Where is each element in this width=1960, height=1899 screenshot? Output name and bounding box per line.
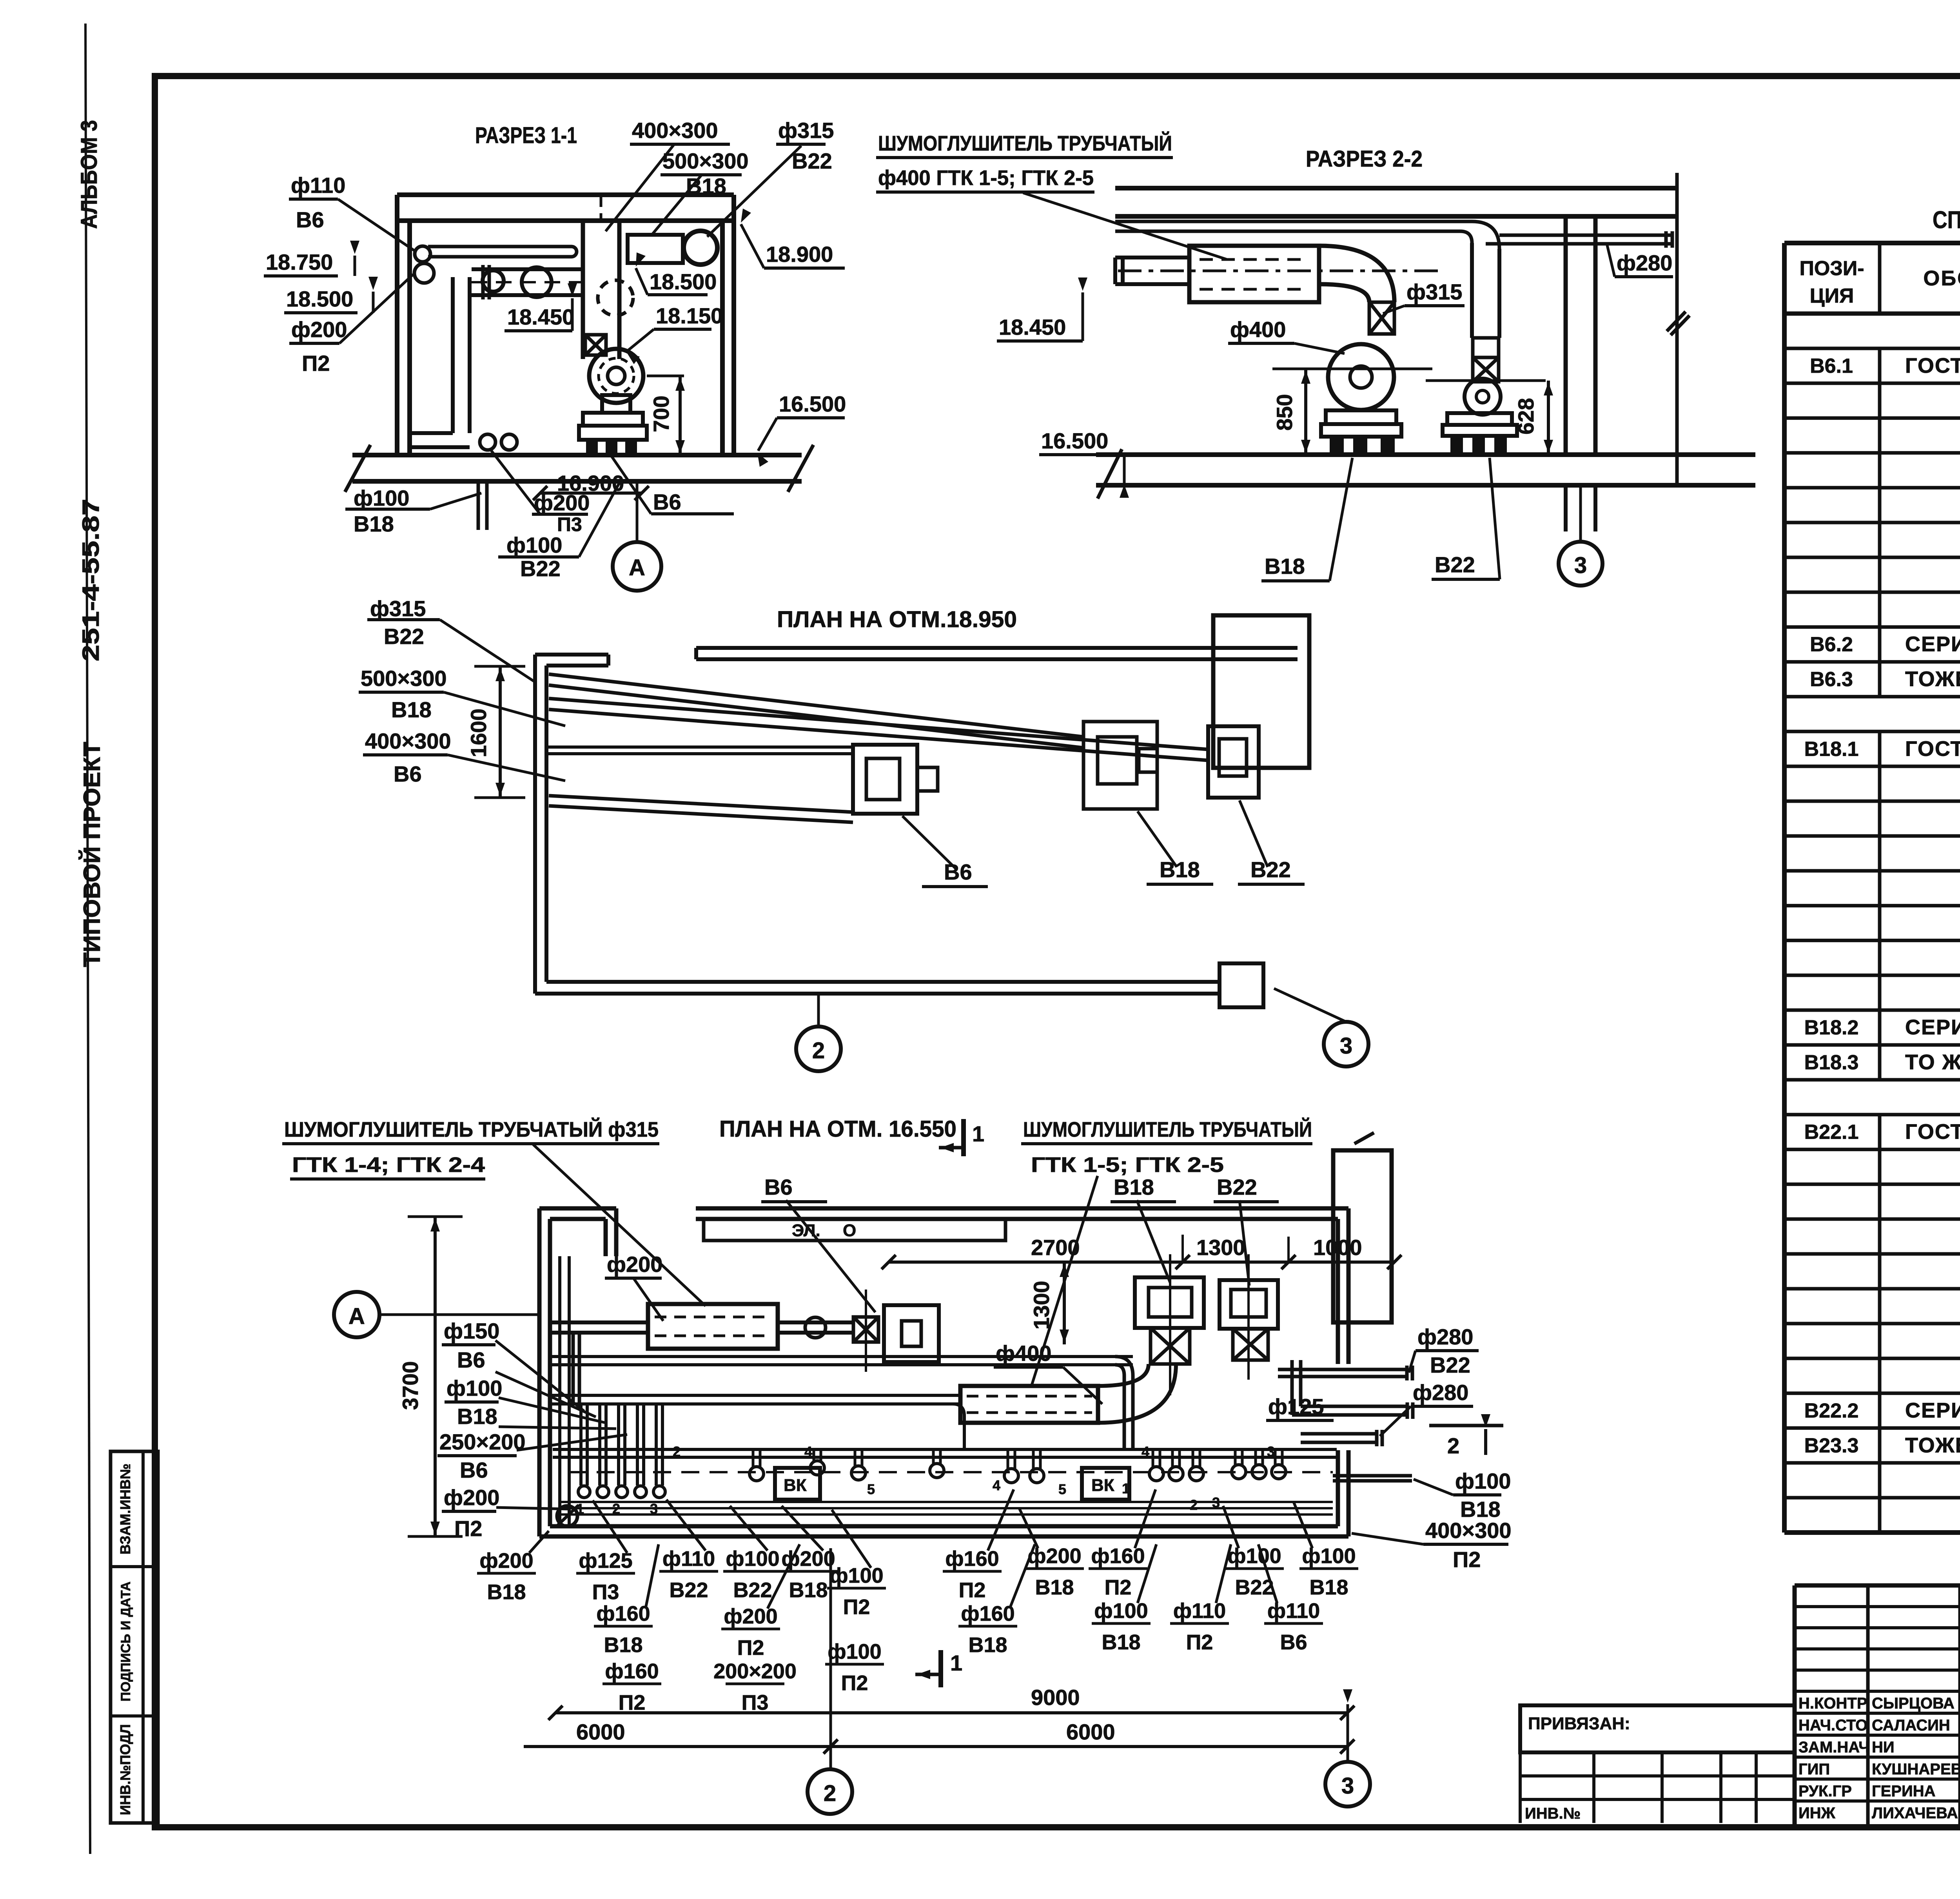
svg-text:ГОСТ 5976-73*: ГОСТ 5976-73*	[1905, 354, 1960, 377]
svg-text:П2: П2	[959, 1578, 986, 1602]
svg-text:3: 3	[1341, 1773, 1354, 1799]
svg-text:ПОЗИ-: ПОЗИ-	[1799, 257, 1864, 280]
svg-text:18.150: 18.150	[656, 303, 723, 328]
svg-text:В18: В18	[604, 1633, 642, 1657]
svg-text:В22: В22	[1430, 1353, 1470, 1377]
svg-text:ЗАМ.НАЧ: ЗАМ.НАЧ	[1798, 1739, 1869, 1756]
svg-text:850: 850	[1272, 394, 1297, 430]
svg-text:ф400 ГТК 1-5; ГТК 2-5: ф400 ГТК 1-5; ГТК 2-5	[878, 166, 1094, 190]
svg-text:П3: П3	[592, 1580, 619, 1604]
svg-text:1000: 1000	[1313, 1235, 1362, 1260]
svg-text:В6.1: В6.1	[1810, 355, 1853, 377]
svg-text:3: 3	[1340, 1033, 1352, 1059]
svg-text:ТИПОВОЙ ПРОЕКТ: ТИПОВОЙ ПРОЕКТ	[79, 742, 105, 967]
svg-text:ГОСТ 5976-73*: ГОСТ 5976-73*	[1905, 1120, 1960, 1144]
svg-text:ф100: ф100	[1302, 1544, 1356, 1568]
svg-text:400×300: 400×300	[632, 118, 718, 143]
svg-text:200×200: 200×200	[713, 1660, 797, 1683]
svg-text:ф125: ф125	[1268, 1394, 1324, 1419]
svg-text:САЛАСИН: САЛАСИН	[1872, 1717, 1950, 1734]
svg-text:2: 2	[673, 1444, 681, 1460]
svg-text:ф100: ф100	[446, 1376, 502, 1400]
svg-text:О: О	[843, 1221, 856, 1240]
svg-text:В22: В22	[1435, 552, 1475, 577]
svg-text:ф400: ф400	[996, 1341, 1051, 1366]
svg-text:4: 4	[804, 1444, 812, 1460]
svg-text:СЕРИЯ 5.904-5: СЕРИЯ 5.904-5	[1905, 1016, 1960, 1039]
svg-text:В6.2: В6.2	[1810, 633, 1853, 656]
svg-text:В18: В18	[391, 697, 432, 722]
svg-text:ф100: ф100	[506, 533, 562, 557]
svg-text:ф100: ф100	[1455, 1469, 1511, 1493]
svg-text:СЫРЦОВА: СЫРЦОВА	[1872, 1695, 1955, 1712]
svg-text:ВК: ВК	[784, 1476, 807, 1495]
svg-text:Н.КОНТР: Н.КОНТР	[1798, 1695, 1867, 1712]
svg-text:СЕРИЯ 5.904-5: СЕРИЯ 5.904-5	[1905, 633, 1960, 656]
svg-text:В22: В22	[792, 149, 832, 173]
svg-text:2: 2	[1190, 1497, 1198, 1513]
svg-text:ф160: ф160	[596, 1602, 650, 1625]
svg-text:В22: В22	[1217, 1175, 1257, 1199]
svg-text:ГЕРИНА: ГЕРИНА	[1872, 1783, 1936, 1800]
svg-text:П2: П2	[302, 351, 330, 375]
svg-text:В18: В18	[1309, 1576, 1348, 1599]
svg-text:В6: В6	[653, 490, 681, 514]
svg-text:В6: В6	[944, 860, 972, 884]
svg-text:ПОДПИСЬ И ДАТА: ПОДПИСЬ И ДАТА	[118, 1582, 133, 1701]
svg-text:В22: В22	[384, 624, 424, 649]
svg-text:400×300: 400×300	[1425, 1518, 1512, 1543]
svg-text:ф200: ф200	[291, 317, 347, 342]
svg-text:4: 4	[1142, 1444, 1149, 1460]
svg-text:2: 2	[612, 1501, 620, 1517]
svg-text:П2: П2	[1186, 1631, 1213, 1654]
svg-text:В22: В22	[1250, 857, 1291, 882]
svg-text:В18: В18	[487, 1580, 526, 1604]
svg-text:ф200: ф200	[479, 1549, 533, 1573]
svg-text:НАЧ.СТО: НАЧ.СТО	[1798, 1717, 1867, 1734]
svg-text:18.900: 18.900	[766, 242, 833, 267]
svg-text:ВЗАМ.ИНВ№: ВЗАМ.ИНВ№	[117, 1464, 133, 1554]
svg-text:В6: В6	[296, 207, 324, 232]
svg-text:В18: В18	[457, 1404, 497, 1429]
svg-text:ф100: ф100	[829, 1564, 883, 1587]
svg-text:ШУМОГЛУШИТЕЛЬ ТРУБЧАТЫЙ: ШУМОГЛУШИТЕЛЬ ТРУБЧАТЫЙ	[1023, 1117, 1312, 1141]
svg-text:16.500: 16.500	[1041, 428, 1108, 453]
svg-text:4: 4	[993, 1477, 1000, 1493]
svg-text:ИНВ.№: ИНВ.№	[1525, 1805, 1581, 1822]
svg-text:500×300: 500×300	[361, 666, 447, 691]
svg-text:ф110: ф110	[662, 1547, 715, 1571]
svg-text:В22.1: В22.1	[1804, 1121, 1859, 1144]
svg-text:250×200: 250×200	[439, 1429, 526, 1454]
svg-text:1: 1	[972, 1121, 984, 1146]
svg-text:В22: В22	[669, 1578, 708, 1602]
svg-text:251-4-55.87: 251-4-55.87	[78, 499, 104, 662]
svg-text:В18: В18	[1102, 1631, 1140, 1654]
svg-text:ф110: ф110	[1173, 1599, 1226, 1623]
svg-text:ТОЖЕ: ТОЖЕ	[1905, 667, 1960, 691]
svg-text:6000: 6000	[1066, 1719, 1115, 1744]
svg-text:ф100: ф100	[1227, 1544, 1281, 1568]
svg-text:П2: П2	[1105, 1576, 1132, 1599]
svg-text:ф280: ф280	[1413, 1380, 1468, 1405]
svg-text:В6: В6	[764, 1175, 793, 1199]
svg-text:18.500: 18.500	[286, 287, 353, 311]
svg-text:ПЛАН НА ОТМ. 16.550: ПЛАН НА ОТМ. 16.550	[719, 1116, 956, 1142]
svg-text:ф125: ф125	[579, 1549, 632, 1573]
svg-text:ф110: ф110	[291, 173, 345, 198]
svg-text:5: 5	[1058, 1481, 1066, 1497]
svg-text:ИНЖ: ИНЖ	[1798, 1805, 1836, 1822]
svg-text:В22: В22	[1235, 1576, 1274, 1599]
svg-text:ф200: ф200	[534, 490, 590, 515]
svg-text:ОБОЗНАЧЕНИЕ: ОБОЗНАЧЕНИЕ	[1923, 267, 1960, 290]
svg-text:НИ: НИ	[1872, 1739, 1895, 1756]
svg-text:ПРИВЯЗАН:: ПРИВЯЗАН:	[1528, 1714, 1630, 1733]
svg-text:П2: П2	[841, 1671, 868, 1695]
svg-text:ф160: ф160	[961, 1602, 1014, 1625]
svg-text:ф200: ф200	[1027, 1544, 1081, 1568]
svg-text:628: 628	[1514, 398, 1538, 434]
svg-text:18.450: 18.450	[999, 315, 1066, 339]
svg-text:9000: 9000	[1031, 1685, 1080, 1710]
svg-text:3: 3	[1212, 1495, 1220, 1511]
svg-text:В6: В6	[394, 762, 422, 786]
svg-text:2: 2	[812, 1038, 825, 1063]
svg-text:1300: 1300	[1029, 1281, 1054, 1330]
svg-text:ф150: ф150	[444, 1319, 499, 1343]
svg-text:18.750: 18.750	[266, 250, 333, 274]
svg-text:СЕРИЯ 5.904-5: СЕРИЯ 5.904-5	[1905, 1399, 1960, 1422]
svg-text:СПЕЦИФИКАЦИЯ СИСТЕМ ВЕНТИЛЯЦ: СПЕЦИФИКАЦИЯ СИСТЕМ ВЕНТИЛЯЦИИ	[1933, 207, 1960, 234]
svg-text:ЦИЯ: ЦИЯ	[1810, 285, 1854, 307]
svg-text:В18: В18	[1160, 857, 1200, 882]
svg-text:В18: В18	[1114, 1175, 1154, 1199]
svg-text:3: 3	[1267, 1444, 1275, 1460]
svg-text:П3: П3	[557, 513, 582, 535]
svg-text:ПЛАН НА ОТМ.18.950: ПЛАН НА ОТМ.18.950	[777, 607, 1017, 632]
svg-text:В18: В18	[354, 511, 394, 536]
svg-text:В18: В18	[1035, 1576, 1074, 1599]
svg-text:В6.3: В6.3	[1810, 668, 1853, 691]
svg-text:В18.2: В18.2	[1804, 1016, 1859, 1039]
svg-text:ф280: ф280	[1417, 1324, 1473, 1349]
svg-text:2: 2	[824, 1781, 836, 1806]
svg-text:ф160: ф160	[1091, 1544, 1145, 1568]
svg-text:2700: 2700	[1031, 1235, 1080, 1260]
svg-text:АЛЬБОМ 3: АЛЬБОМ 3	[76, 120, 102, 229]
svg-text:18.450: 18.450	[507, 305, 574, 329]
svg-text:В18.1: В18.1	[1804, 738, 1859, 760]
svg-text:ф160: ф160	[605, 1660, 659, 1683]
svg-text:1600: 1600	[466, 709, 491, 758]
svg-text:В18: В18	[1265, 554, 1305, 579]
svg-text:2: 2	[1447, 1433, 1459, 1458]
svg-text:П3: П3	[742, 1691, 769, 1714]
svg-text:ф160: ф160	[945, 1547, 999, 1571]
svg-text:5: 5	[867, 1481, 875, 1497]
svg-text:6000: 6000	[576, 1719, 625, 1744]
svg-text:ф200: ф200	[444, 1485, 499, 1510]
svg-text:3: 3	[650, 1501, 658, 1517]
svg-text:В18: В18	[789, 1578, 828, 1602]
svg-text:КУШНАРЕВ: КУШНАРЕВ	[1872, 1761, 1960, 1778]
svg-text:ТОЖЕ: ТОЖЕ	[1905, 1433, 1960, 1457]
svg-text:ф315: ф315	[370, 596, 426, 621]
svg-text:16.500: 16.500	[779, 392, 846, 416]
svg-text:В23.3: В23.3	[1804, 1434, 1859, 1457]
svg-text:1300: 1300	[1196, 1235, 1245, 1260]
svg-text:П2: П2	[843, 1595, 870, 1619]
svg-text:1: 1	[950, 1651, 962, 1675]
svg-text:РУК.ГР: РУК.ГР	[1798, 1783, 1852, 1800]
svg-text:РАЗРЕЗ 2-2: РАЗРЕЗ 2-2	[1306, 146, 1423, 172]
svg-text:ИНВ.№ПОДЛ: ИНВ.№ПОДЛ	[117, 1724, 133, 1815]
svg-text:ВК: ВК	[1091, 1476, 1114, 1495]
svg-text:В18.3: В18.3	[1804, 1051, 1859, 1074]
svg-text:П2: П2	[737, 1636, 764, 1660]
svg-text:П2: П2	[1453, 1547, 1481, 1572]
svg-text:500×300: 500×300	[662, 149, 749, 173]
svg-text:ф200: ф200	[607, 1252, 662, 1277]
svg-text:ф100: ф100	[354, 486, 409, 510]
svg-text:ЛИХАЧЕВА: ЛИХАЧЕВА	[1872, 1805, 1958, 1822]
svg-text:РАЗРЕЗ 1-1: РАЗРЕЗ 1-1	[475, 123, 577, 148]
svg-text:П2: П2	[619, 1691, 646, 1714]
svg-text:В22.2: В22.2	[1804, 1400, 1859, 1422]
svg-text:18.500: 18.500	[650, 269, 717, 294]
svg-text:В6: В6	[460, 1458, 488, 1482]
svg-text:700: 700	[649, 395, 673, 432]
svg-text:ф280: ф280	[1617, 250, 1672, 275]
svg-text:ф100: ф100	[726, 1547, 779, 1571]
svg-text:ф315: ф315	[778, 118, 834, 143]
svg-text:ф100: ф100	[1094, 1599, 1148, 1623]
svg-text:В22: В22	[520, 556, 561, 581]
svg-text:ГТК 1-4; ГТК 2-4: ГТК 1-4; ГТК 2-4	[292, 1153, 485, 1177]
svg-text:ф400: ф400	[1230, 317, 1286, 342]
svg-text:3: 3	[1574, 553, 1587, 578]
svg-text:400×300: 400×300	[365, 729, 451, 753]
svg-text:ф315: ф315	[1406, 279, 1462, 304]
svg-text:ф100: ф100	[828, 1640, 881, 1663]
svg-text:ГИП: ГИП	[1798, 1761, 1830, 1778]
svg-text:ф200: ф200	[724, 1605, 777, 1628]
svg-text:ГТК 1-5; ГТК 2-5: ГТК 1-5; ГТК 2-5	[1031, 1153, 1224, 1177]
svg-text:В6: В6	[457, 1348, 485, 1372]
svg-text:ф110: ф110	[1267, 1599, 1320, 1623]
svg-text:ГОСТ 5976-73*: ГОСТ 5976-73*	[1905, 737, 1960, 760]
svg-text:В18: В18	[968, 1633, 1007, 1657]
svg-text:А: А	[629, 555, 645, 580]
svg-text:ШУМОГЛУШИТЕЛЬ ТРУБЧАТЫЙ ф315: ШУМОГЛУШИТЕЛЬ ТРУБЧАТЫЙ ф315	[284, 1117, 659, 1141]
svg-text:ШУМОГЛУШИТЕЛЬ ТРУБЧАТЫЙ: ШУМОГЛУШИТЕЛЬ ТРУБЧАТЫЙ	[878, 131, 1172, 155]
svg-text:В22: В22	[733, 1578, 772, 1602]
svg-text:В6: В6	[1280, 1631, 1307, 1654]
svg-text:А: А	[348, 1304, 365, 1329]
svg-text:3700: 3700	[398, 1361, 423, 1410]
svg-text:ТО ЖЕ: ТО ЖЕ	[1905, 1050, 1960, 1074]
